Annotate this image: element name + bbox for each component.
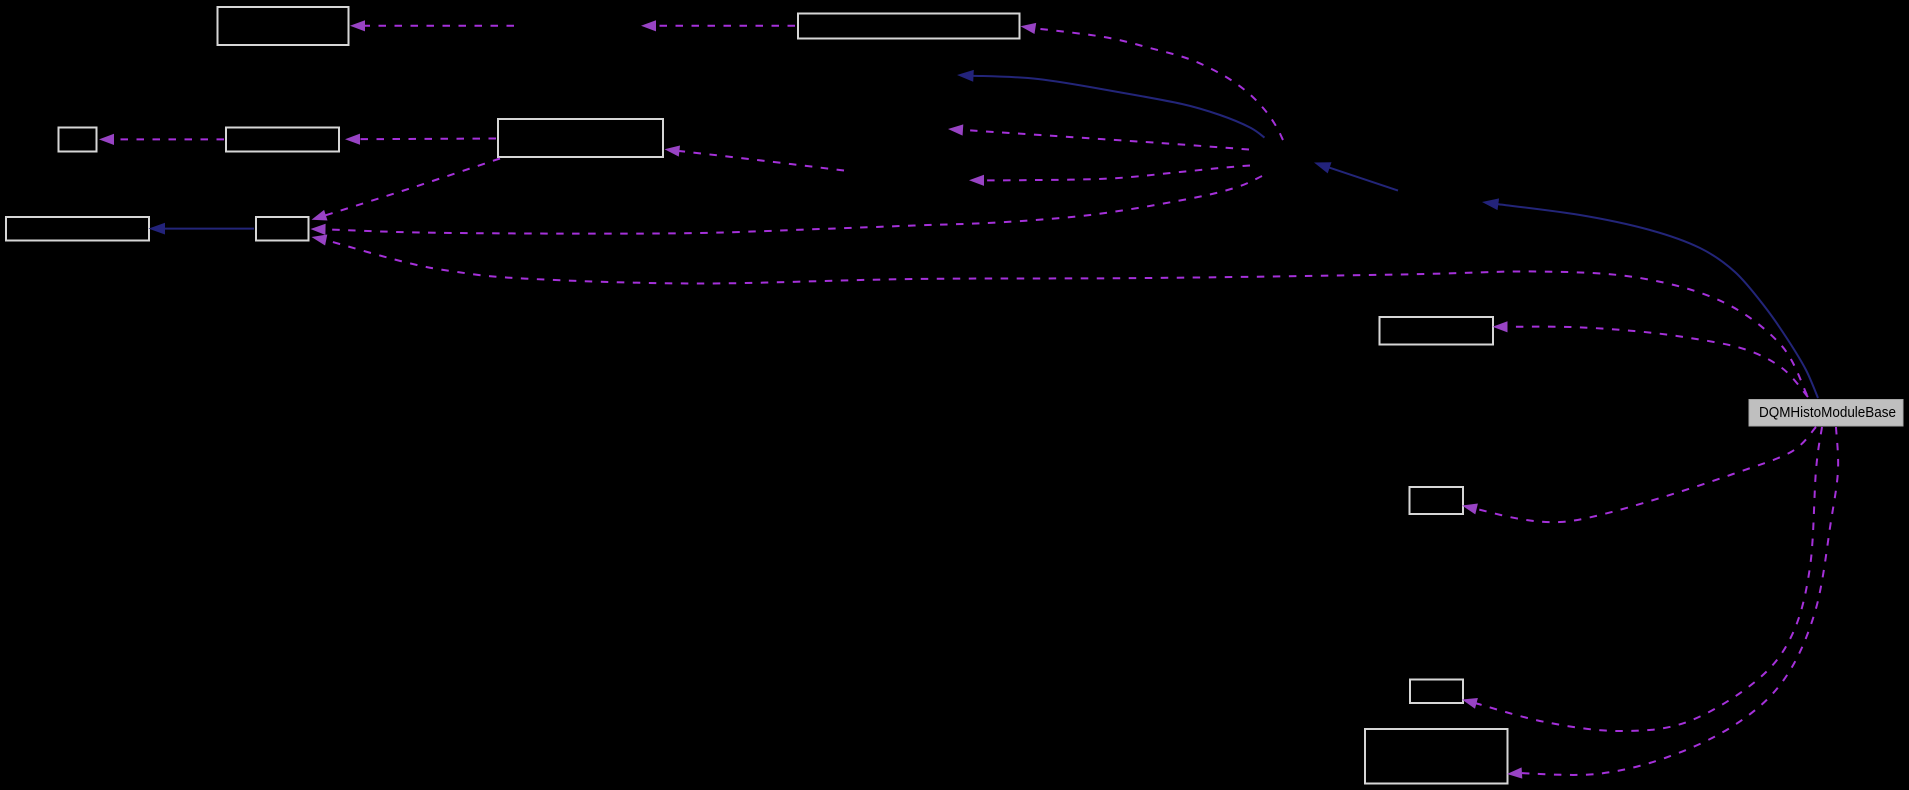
svg-text:DQMHistoModuleBase: DQMHistoModuleBase [1759,404,1896,421]
edge V0->X1 dashed [961,130,1249,150]
node G (empty label) [256,217,309,241]
edge G->F blue [163,228,254,230]
node L (empty label, 2-line) [1365,729,1508,784]
node DQMHistoModuleBase (central, gray) [1749,400,1903,427]
edge S1->A dashed [363,25,514,27]
node E (empty label, 2-line) [498,119,663,157]
edge DQM->H dashed [1506,327,1809,397]
edge DQM->L dashed [1520,427,1838,775]
node B (empty label) [798,14,1020,39]
edge D->C dashed [112,138,224,140]
edge DQM->G dashed long [324,240,1807,395]
node H (empty label) [1380,317,1494,345]
edge V1->V0 blue [1328,167,1398,190]
node K (empty label) [1410,680,1463,704]
node J (empty label) [1410,487,1464,514]
edge V0->X0 blue arc [972,76,1265,138]
node A (empty label) [218,7,349,45]
node F (empty label) [6,217,149,241]
edge E->D dashed [358,138,496,141]
edge V0->G dashed long [324,176,1263,234]
node D (empty label) [226,128,339,152]
edge V0->X2b dashed [982,166,1250,181]
node C (empty label) [59,128,97,152]
edge DQM->K dashed [1475,427,1823,731]
edge B->S1 dashed [654,25,795,27]
edge DQM->V1 blue [1496,204,1818,398]
edge E->G dashed [324,159,500,216]
edge DQM->J dashed [1475,427,1816,522]
edge X2b->E dashed [677,151,844,171]
edge V0->B dashed arc [1033,28,1283,140]
